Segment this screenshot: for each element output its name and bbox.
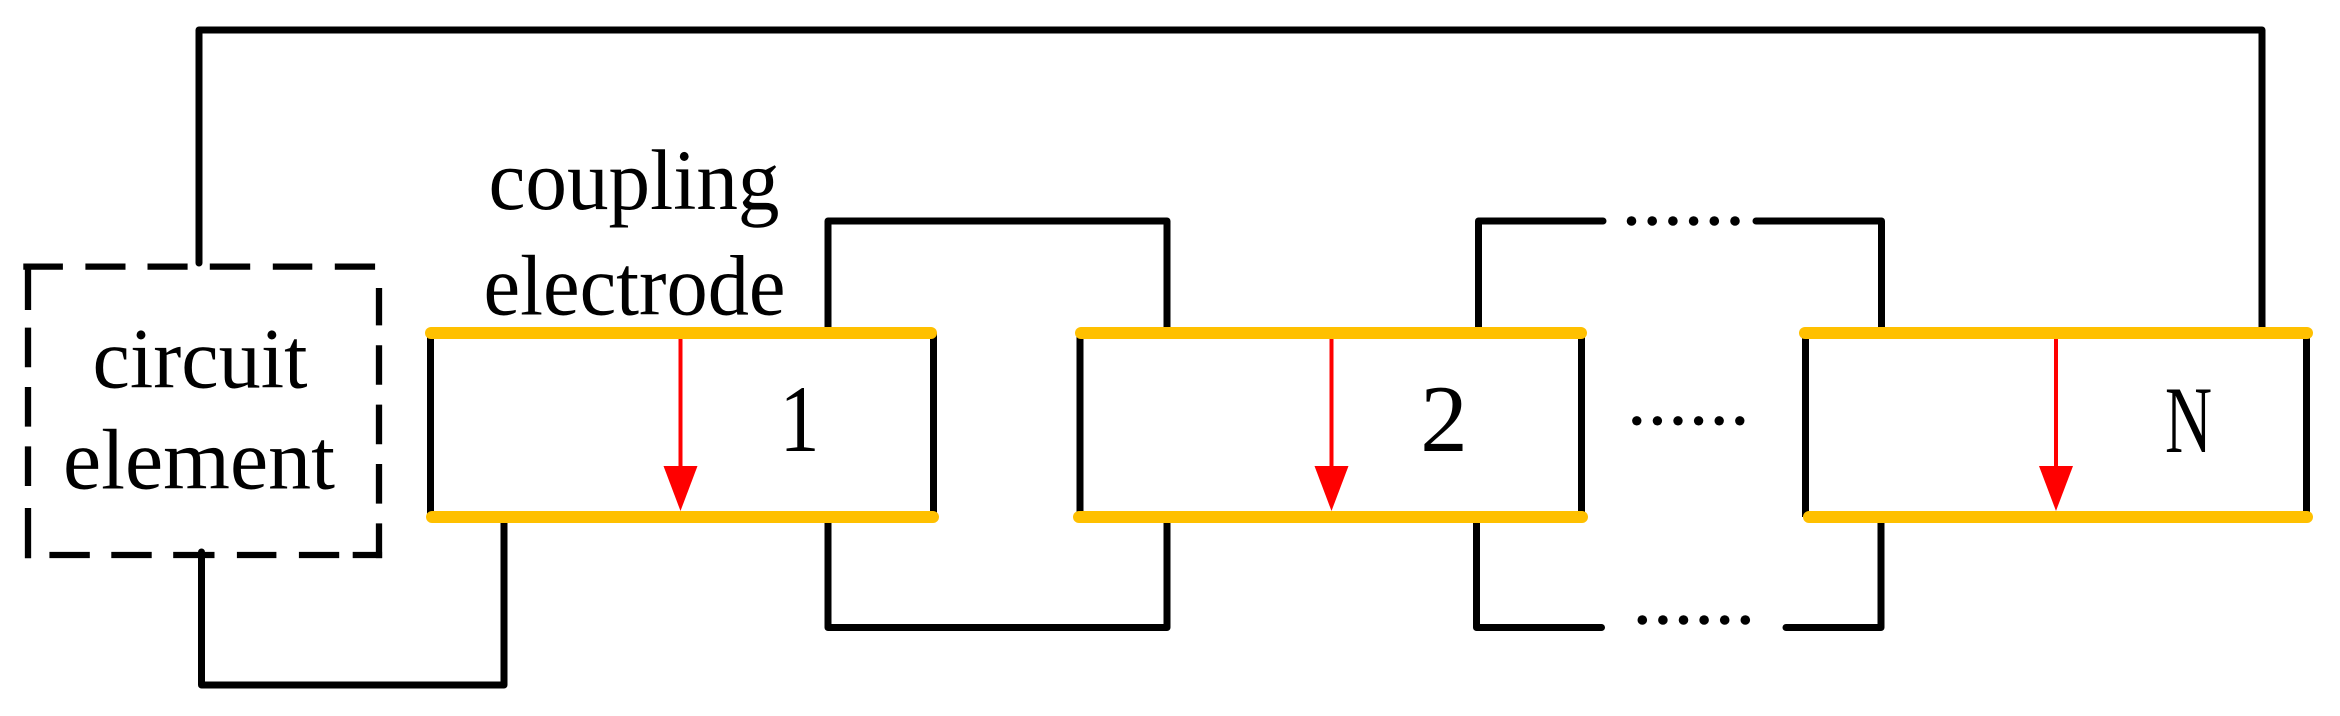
svg-text:1: 1 [780, 366, 820, 472]
polarization arrow 1 [664, 339, 698, 511]
wire: upper bracket between transducers 1 and 2 [828, 221, 1167, 333]
svg-text:2: 2 [1420, 366, 1468, 472]
svg-text:circuit: circuit [93, 311, 308, 407]
label: circuit element [63, 311, 335, 508]
transducer 2 right side [1578, 333, 1585, 517]
circuit element box, right edge [376, 288, 382, 558]
svg-text:element: element [63, 412, 335, 508]
label: transducer N [2165, 367, 2212, 473]
transducer N left side [1802, 333, 1809, 517]
wire: lower bracket between 2 and N, right part [1786, 517, 1881, 628]
label: transducer 2 [1420, 366, 1468, 472]
transducer 2 left side [1077, 333, 1084, 517]
svg-text:coupling: coupling [489, 132, 780, 228]
wire: upper bracket between 2 and N, right part [1756, 221, 1882, 333]
wire: top loop from circuit element box to electrode N top [199, 30, 2262, 333]
dots: lower ellipsis [1638, 615, 1751, 625]
coupling electrode 1 top [431, 327, 931, 339]
coupling electrode 2 top [1081, 327, 1581, 339]
circuit element box, left edge [25, 268, 31, 558]
circuit element box (dashed), top edge [23, 263, 375, 269]
polarization arrow 2 [1315, 339, 1349, 511]
coupling electrode N top [1805, 327, 2307, 339]
svg-text:N: N [2165, 367, 2212, 473]
transducer N right side [2303, 333, 2310, 517]
coupling electrode 1 bottom [432, 511, 933, 523]
polarization arrow N [2039, 339, 2073, 511]
dots: upper ellipsis [1627, 216, 1740, 226]
transducer 1 left side [427, 333, 434, 517]
wire: bottom return from circuit element box to electrode 1 bottom [202, 517, 505, 685]
label: coupling electrode [484, 132, 786, 334]
label: transducer 1 [780, 366, 820, 472]
transducer 1 right side [930, 333, 937, 517]
wire: lower bracket between 2 and N, left part [1477, 517, 1602, 628]
svg-text:electrode: electrode [484, 238, 786, 334]
wire: lower bracket between transducers 1 and 2 [828, 517, 1167, 628]
circuit element box, bottom edge [49, 552, 382, 558]
dots: middle ellipsis between transducers 2 and N [1632, 416, 1744, 425]
wire: upper bracket between 2 and N, left part [1479, 221, 1604, 333]
coupling electrode N bottom [1809, 511, 2307, 523]
coupling electrode 2 bottom [1079, 511, 1582, 523]
